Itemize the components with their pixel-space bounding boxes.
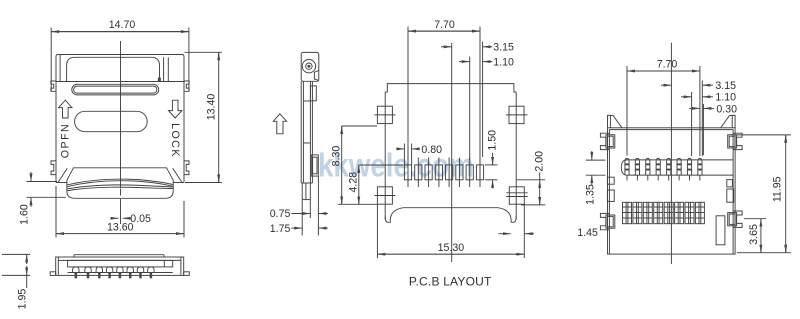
card slot stadium outer: [72, 84, 159, 95]
lug bottom left: [600, 213, 609, 229]
svg-text:3.65: 3.65: [748, 224, 760, 245]
dim 14.70: [50, 28, 52, 92]
pin band lines: [621, 160, 626, 175]
svg-text:0.80: 0.80: [421, 144, 442, 156]
dim 15.30: [377, 253, 524, 255]
svg-text:P.C.B LAYOUT: P.C.B LAYOUT: [409, 275, 492, 289]
spring curve 4: [67, 187, 173, 190]
foot left: [50, 272, 56, 276]
svg-text:1.10: 1.10: [715, 92, 736, 104]
dim 1.10 pcb: [469, 57, 471, 161]
outline top box: [385, 84, 516, 92]
outline right side: [515, 92, 517, 220]
contact pads row: [404, 158, 483, 188]
dim 8.30: [342, 125, 378, 127]
pins top row: [625, 158, 702, 180]
segment tick a: [303, 100, 310, 102]
svg-text:1.35: 1.35: [584, 184, 596, 205]
svg-text:0.30: 0.30: [716, 103, 737, 115]
mount pad BL: [377, 187, 392, 204]
card top rounded edge: [67, 57, 160, 81]
svg-text:15.30: 15.30: [438, 242, 465, 254]
shell bottom corner bevel right: [173, 168, 182, 182]
centerline pcb: [451, 43, 453, 262]
svg-text:4.28: 4.28: [347, 172, 359, 193]
dim 3.15 pcb: [482, 42, 484, 158]
slider lines: [163, 57, 165, 81]
strip outer left: [300, 81, 302, 183]
dim 11.95: [737, 134, 791, 136]
svg-text:3.15: 3.15: [715, 80, 736, 92]
spring curve 3: [67, 185, 173, 189]
svg-text:8.30: 8.30: [330, 146, 342, 167]
dim 0.05: [120, 199, 122, 224]
dim 1.95: [2, 253, 30, 255]
side body: [56, 257, 184, 275]
lug bottom right: [733, 211, 742, 227]
dim 13.40: [185, 51, 222, 53]
switch divider: [163, 260, 165, 267]
dim 3.65: [744, 218, 766, 220]
head block: [301, 52, 319, 81]
tail right: [309, 183, 311, 200]
strip inner right: [309, 81, 311, 183]
svg-text:1.95: 1.95: [17, 289, 29, 310]
centerline right view: [670, 43, 672, 264]
inner top line: [58, 259, 181, 261]
tab upper left: [51, 81, 56, 91]
tail bottom: [302, 199, 310, 201]
finger stadium cutout: [75, 111, 148, 131]
tab lower left: [51, 161, 56, 175]
outline bottom profile: [385, 208, 516, 223]
shell bottom edge right segment: [173, 182, 184, 184]
lock arrow: [169, 100, 182, 118]
pad edge ext right (15.30): [523, 204, 525, 258]
dim 4.28: [359, 164, 404, 166]
shell ledge line: [56, 81, 184, 83]
svg-text:2.00: 2.00: [534, 151, 546, 172]
svg-text:OPFN: OPFN: [60, 123, 72, 158]
dim 0.80: [403, 144, 405, 165]
dim 13.60: [55, 186, 57, 238]
card bottom pill: [67, 168, 173, 199]
shell bottom corner bevel left: [58, 168, 67, 182]
dim 1.10 right view: [691, 92, 693, 156]
window lower outer: [311, 155, 318, 176]
body outer rect: [608, 128, 736, 254]
svg-text:3.15: 3.15: [493, 42, 514, 54]
shell inner left edge: [59, 55, 61, 82]
svg-text:1.75: 1.75: [270, 223, 291, 235]
ext lines bottom: [301, 200, 303, 236]
mount pad TL: [377, 106, 392, 123]
spring curve 2: [67, 181, 173, 187]
switch rect: [716, 216, 725, 245]
strip bottom line: [301, 182, 312, 184]
spring curve 1: [67, 179, 173, 185]
insert arrow: [273, 114, 286, 134]
lug top left: [600, 133, 609, 149]
slot rect: [68, 260, 173, 267]
dim 3.15 right view: [701, 81, 703, 157]
svg-text:0.05: 0.05: [130, 213, 151, 225]
strip inner left: [302, 81, 304, 183]
card sliver: [74, 254, 164, 256]
mount pad BR: [509, 187, 524, 204]
svg-text:0.75: 0.75: [270, 208, 291, 220]
dim 7.70 right view: [626, 66, 628, 156]
svg-text:1.10: 1.10: [493, 57, 514, 69]
corner block left: [608, 115, 622, 127]
tail mid: [305, 183, 307, 200]
svg-text:13.40: 13.40: [206, 94, 218, 121]
segment tick b: [303, 142, 310, 144]
head notch: [314, 70, 318, 80]
svg-text:7.70: 7.70: [657, 59, 678, 71]
window upper: [310, 86, 316, 101]
screw circle outer: [302, 59, 315, 72]
window lower inner: [313, 157, 317, 174]
svg-text:14.70: 14.70: [109, 19, 136, 31]
foot right: [184, 272, 190, 276]
shell bottom edge left segment: [56, 182, 67, 184]
svg-text:1.45: 1.45: [577, 227, 598, 239]
card slot stadium inner: [74, 86, 157, 93]
screw circle mid: [306, 63, 312, 69]
dim 0.30 right view: [702, 104, 704, 155]
strip outer right: [311, 81, 313, 183]
svg-text:LOCK: LOCK: [169, 123, 181, 158]
tail left: [301, 183, 303, 200]
centerline view1: [120, 41, 122, 188]
svg-text:7.70: 7.70: [434, 19, 455, 31]
svg-text:11.95: 11.95: [772, 176, 784, 202]
tab upper right: [184, 81, 189, 91]
pins side view: [73, 267, 155, 278]
pad edge ext left (15.30): [376, 204, 378, 258]
body inner edges: [608, 130, 610, 255]
dim 1.35: [586, 159, 606, 161]
svg-text:1.60: 1.60: [19, 204, 31, 225]
outline left side: [384, 92, 386, 220]
corner block right: [721, 115, 735, 127]
svg-text:1.50: 1.50: [487, 130, 499, 151]
screw dot: [307, 65, 310, 68]
cap walls: [57, 257, 59, 275]
inner floor line: [68, 272, 173, 274]
dim 7.70 pcb: [407, 27, 409, 161]
dim 2.00: [516, 179, 545, 181]
slider latch mark: [158, 78, 161, 82]
mount pad TR: [509, 106, 524, 123]
shell outline top view: [56, 55, 184, 183]
center stub: [120, 189, 122, 196]
hook small dim arrows: [499, 233, 511, 235]
dim 1.50: [485, 164, 498, 166]
tab lower right: [184, 161, 189, 175]
hatched contact row: [623, 202, 705, 223]
open arrow: [59, 100, 72, 118]
lug mid right: [727, 180, 733, 187]
lug top right: [733, 133, 742, 149]
lug mid left: [607, 177, 614, 184]
dim 1.60: [27, 181, 58, 183]
